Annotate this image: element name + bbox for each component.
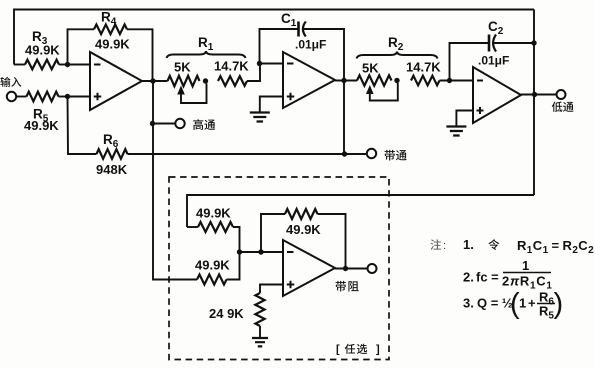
node: notch summing junction bbox=[237, 249, 242, 254]
resistor R2 bracket and label bbox=[357, 52, 438, 59]
resistor R1 bracket and label bbox=[167, 51, 246, 58]
node: U1 non-inverting input junction bbox=[65, 94, 70, 99]
svg-text::: : bbox=[443, 240, 446, 252]
node: U2 inverting input junction bbox=[257, 61, 262, 66]
wire: low-pass feedback top rail bbox=[14, 10, 534, 65]
resistor R5 49.9K (input) bbox=[27, 92, 59, 102]
node: low-pass output terminal 低通 bbox=[557, 90, 566, 99]
resistor 49.9K (U4 feedback) bbox=[261, 214, 285, 252]
resistor 24.9K (U4 bias to ground) bbox=[260, 285, 283, 294]
node: C2 to feedback rail junction bbox=[531, 40, 536, 45]
node: low-pass output junction bbox=[532, 92, 537, 97]
svg-text:5K: 5K bbox=[362, 61, 379, 76]
resistor 49.9K (LP input to notch) bbox=[187, 226, 198, 228]
resistor R4 49.9K (U1 feedback) bbox=[68, 29, 95, 64]
capacitor C2 .01uF (U3 integrator) bbox=[450, 43, 490, 81]
svg-text:]: ] bbox=[376, 344, 380, 356]
node: 高通 stub junction bbox=[150, 121, 155, 126]
label: note 注 bbox=[430, 239, 441, 250]
node: U3 inverting input junction bbox=[447, 78, 452, 83]
resistor 49.9K (HP input to notch) bbox=[197, 275, 227, 285]
wire: LP output to notch summing rail bbox=[187, 195, 534, 227]
svg-text:49.9K: 49.9K bbox=[95, 37, 130, 52]
capacitor C1 .01uF (U2 integrator) bbox=[260, 29, 299, 64]
node: band-pass terminal junction bbox=[342, 151, 347, 156]
resistor R6 948K (Q-setting feedback) bbox=[68, 97, 97, 155]
wire: U2 output bbox=[335, 80, 357, 82]
wire: right vertical (C2 node to LP output down to notch rail) bbox=[533, 10, 535, 196]
svg-text:49.9K: 49.9K bbox=[24, 118, 59, 133]
dashed box: optional notch section bbox=[169, 177, 389, 360]
svg-text:Q = ½: Q = ½ bbox=[477, 296, 513, 311]
op-amp U1 (summing amplifier) bbox=[90, 52, 142, 110]
svg-text:.01μF: .01μF bbox=[295, 38, 326, 52]
wire: to U1 non-inverting input bbox=[68, 96, 91, 98]
wiper of 5K pot R2 bbox=[370, 83, 398, 101]
node: high-pass output junction bbox=[150, 78, 155, 83]
resistor R3 49.9K bbox=[14, 64, 25, 66]
svg-text:.01μF: .01μF bbox=[478, 54, 509, 68]
wire: to U1 inverting input bbox=[68, 64, 91, 66]
wire: to U2 inverting input bbox=[260, 63, 284, 65]
node: R2 pot junction bbox=[394, 78, 399, 83]
svg-text:3.: 3. bbox=[463, 296, 474, 311]
ground at 24.9K bbox=[259, 326, 261, 338]
svg-text:fc =: fc = bbox=[476, 270, 499, 285]
node: high-pass output terminal 高通 bbox=[153, 123, 176, 125]
svg-text:49.9K: 49.9K bbox=[195, 258, 230, 273]
svg-text:24 9K: 24 9K bbox=[209, 306, 244, 321]
wire: U1 output bbox=[142, 80, 168, 82]
svg-text:14.7K: 14.7K bbox=[214, 59, 249, 74]
node: band-pass output junction bbox=[341, 78, 346, 83]
svg-text:49.9K: 49.9K bbox=[286, 222, 321, 237]
wiper of 5K pot R1 bbox=[181, 84, 207, 104]
svg-text:[: [ bbox=[336, 344, 340, 356]
node: U4 feedback junction bbox=[258, 249, 263, 254]
node: notch output junction bbox=[343, 266, 348, 271]
wire: to U4 inverting input bbox=[240, 251, 284, 253]
op-amp U4 (notch summing amplifier) bbox=[283, 240, 335, 296]
wire: band-pass vertical bbox=[343, 81, 345, 155]
svg-text:): ) bbox=[554, 288, 564, 320]
ground at U2 non-inverting input bbox=[260, 97, 283, 113]
wire: high-pass vertical down to notch network bbox=[153, 81, 197, 280]
svg-text:+: + bbox=[528, 296, 536, 311]
svg-text:2.: 2. bbox=[463, 270, 474, 285]
node: input terminal 输入 bbox=[0, 77, 10, 87]
svg-text:948K: 948K bbox=[96, 162, 128, 177]
svg-text:49.9K: 49.9K bbox=[25, 43, 60, 58]
node: U1 inverting input junction bbox=[65, 62, 70, 67]
svg-text:14.7K: 14.7K bbox=[406, 60, 441, 75]
svg-text:1: 1 bbox=[522, 258, 529, 273]
node: R1 pot junction bbox=[203, 78, 208, 83]
ground at U3 non-inverting input bbox=[456, 111, 473, 127]
svg-text:5K: 5K bbox=[174, 60, 191, 75]
op-amp U3 (second integrator) bbox=[473, 67, 521, 123]
node: band-pass output terminal 带通 bbox=[345, 153, 367, 155]
svg-text:1: 1 bbox=[519, 296, 526, 311]
wire: U3 output to 低通 bbox=[521, 94, 556, 96]
svg-text:49.9K: 49.9K bbox=[196, 206, 231, 221]
svg-text:1.: 1. bbox=[463, 237, 474, 252]
op-amp U2 (first integrator) bbox=[283, 52, 335, 108]
node: notch output terminal 带阻 bbox=[335, 268, 368, 270]
